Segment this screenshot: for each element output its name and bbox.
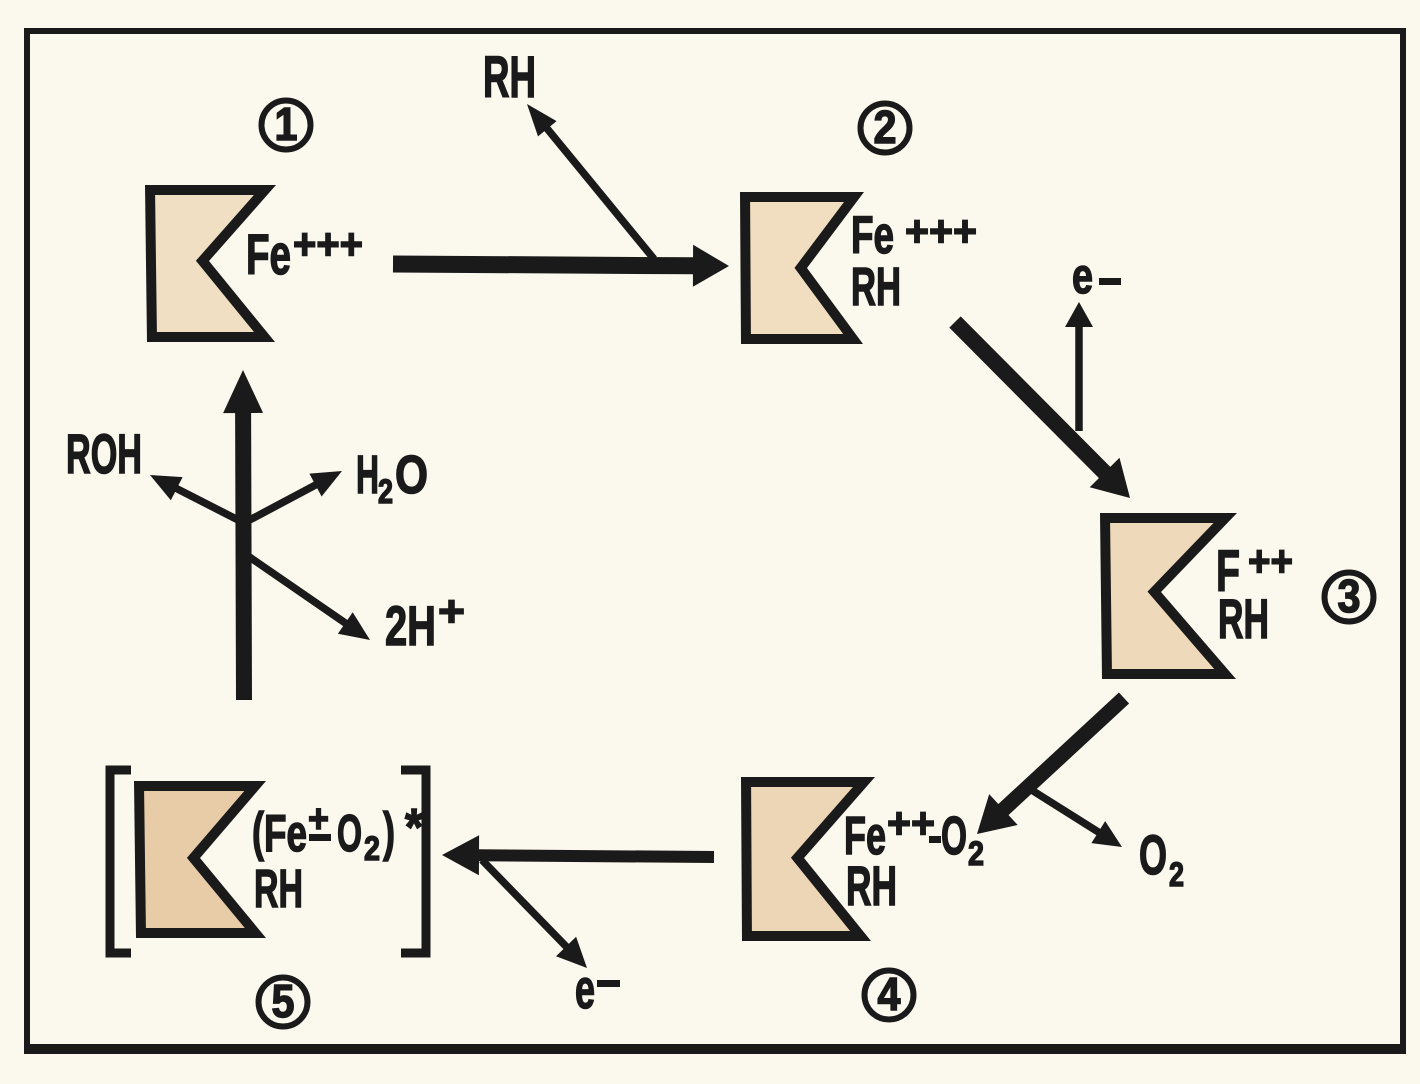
- svg-text:ROH: ROH: [66, 422, 142, 485]
- svg-text:O: O: [395, 445, 428, 505]
- svg-text:H: H: [356, 445, 379, 505]
- svg-text:2: 2: [364, 830, 380, 868]
- svg-text:O: O: [941, 806, 967, 866]
- svg-text:Fe: Fe: [246, 223, 291, 287]
- svg-text:(: (: [252, 802, 264, 862]
- svg-text:*: *: [405, 799, 424, 857]
- svg-text:O: O: [1139, 823, 1167, 886]
- svg-text:RH: RH: [846, 854, 897, 917]
- svg-text:5: 5: [272, 975, 295, 1027]
- svg-text:2: 2: [378, 473, 393, 511]
- svg-text:RH: RH: [851, 257, 901, 317]
- svg-text:+: +: [438, 587, 465, 636]
- svg-text:): ): [383, 802, 395, 862]
- svg-text:+++: +++: [905, 207, 977, 256]
- svg-text:O: O: [337, 805, 362, 863]
- svg-text:++: ++: [887, 799, 935, 848]
- svg-text:e: e: [575, 957, 595, 1020]
- svg-text:RH: RH: [483, 45, 536, 110]
- svg-text:RH: RH: [1218, 587, 1269, 650]
- svg-text:RH: RH: [254, 859, 303, 919]
- svg-text:2H: 2H: [385, 594, 436, 657]
- svg-text:2: 2: [968, 835, 984, 873]
- svg-text:e: e: [1072, 248, 1093, 304]
- svg-text:Fe: Fe: [264, 805, 307, 863]
- svg-text:3: 3: [1338, 570, 1361, 622]
- svg-text:++: ++: [1248, 537, 1293, 586]
- svg-text:+++: +++: [293, 220, 363, 269]
- svg-text:4: 4: [878, 968, 901, 1020]
- svg-text:2: 2: [874, 101, 897, 153]
- svg-text:1: 1: [275, 98, 298, 150]
- svg-text:2: 2: [1169, 856, 1184, 894]
